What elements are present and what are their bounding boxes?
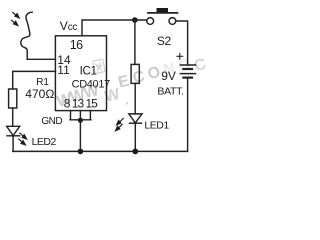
wire Vcc node to resistor R2: [134, 20, 136, 64]
svg-text:9V: 9V: [161, 69, 176, 83]
switch S2 contacts: [147, 18, 154, 25]
node GND rail junction: [78, 149, 84, 155]
wire GND to bottom rail: [79, 120, 81, 152]
light arrow 1: [13, 13, 17, 17]
LED2 light arrow 2: [19, 139, 23, 143]
node LED1 bottom junction: [132, 149, 138, 155]
bottom rail: [13, 150, 188, 152]
GND bus: [70, 119, 91, 121]
wire pin 13 tick: [79, 111, 81, 120]
svg-text:S2: S2: [157, 34, 172, 48]
svg-text:BATT.: BATT.: [157, 85, 183, 97]
LED2 triangle: [7, 126, 20, 135]
node Vcc junction dot: [132, 17, 138, 23]
svg-text:GND: GND: [41, 116, 62, 127]
resistor R2: [131, 64, 139, 83]
wire pin 8 tick: [70, 111, 72, 120]
light arrow 2: [11, 20, 15, 24]
wire LED2 to bottom rail: [12, 136, 14, 152]
wire S2 to battery: [176, 21, 188, 65]
resistor R1: [9, 89, 17, 108]
watermark www.eco diagonal: [55, 56, 208, 111]
LED1 triangle: [129, 114, 142, 123]
node GND bus junction: [78, 118, 83, 123]
svg-text:470Ω: 470Ω: [25, 87, 54, 101]
LED2 cathode bar: [7, 135, 20, 137]
battery plus sign: [177, 53, 183, 59]
svg-text:LED1: LED1: [144, 119, 169, 131]
wire pin11: [13, 71, 56, 89]
wire R2 to LED1: [134, 83, 136, 114]
watermark small seal glyph: [93, 59, 105, 73]
LED1 cathode bar: [130, 122, 142, 124]
wire battery to bottom rail: [187, 79, 189, 152]
battery BATT 9V plates: [180, 64, 195, 66]
svg-text:11: 11: [57, 63, 70, 77]
photo sensor squiggle: [21, 12, 32, 59]
pin16 wire to Vcc rail: [82, 20, 147, 36]
wire pin 15 tick: [89, 111, 91, 120]
wire LED1 to bottom rail: [134, 123, 136, 151]
svg-text:IC1: IC1: [80, 65, 97, 77]
LED2 light arrow 1: [20, 133, 24, 137]
IC1 body: [55, 36, 106, 111]
switch S2 bridge: [148, 12, 177, 14]
svg-text:8 13 15: 8 13 15: [64, 97, 98, 111]
switch S2 cap: [157, 8, 169, 12]
svg-text:LED2: LED2: [32, 136, 57, 148]
LED1 light arrow 2: [118, 124, 122, 128]
wire R1 to LED2: [12, 108, 14, 126]
wire pin14: [27, 58, 55, 60]
LED1 light arrow 1: [120, 119, 124, 123]
svg-text:CD4017: CD4017: [72, 79, 110, 91]
svg-text:16: 16: [70, 38, 83, 52]
